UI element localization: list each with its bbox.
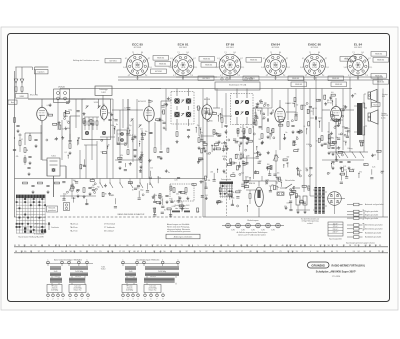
socket side label boxes bbox=[153, 52, 389, 87]
svg-text:47k: 47k bbox=[139, 172, 142, 174]
wires EM84 bbox=[243, 160, 276, 181]
svg-text:CuL 0,07: CuL 0,07 bbox=[75, 276, 81, 278]
resistor R4 bbox=[69, 144, 72, 155]
svg-text:13: 13 bbox=[296, 251, 298, 253]
svg-text:7,1: 7,1 bbox=[224, 52, 226, 54]
svg-text:1,8 45: 1,8 45 bbox=[181, 67, 186, 69]
legend symbols column bbox=[347, 203, 384, 239]
svg-text:28: 28 bbox=[349, 245, 351, 247]
svg-text:3: 3 bbox=[69, 259, 70, 261]
svg-text:2: 2 bbox=[53, 299, 54, 301]
svg-text:1n5: 1n5 bbox=[331, 92, 334, 94]
svg-text:Regler geschaltet: Regler geschaltet bbox=[365, 210, 379, 213]
speaker connector box bbox=[372, 103, 381, 107]
svg-text:47k: 47k bbox=[238, 159, 241, 161]
svg-text:16: 16 bbox=[61, 251, 63, 253]
svg-text:4: 4 bbox=[302, 251, 303, 253]
svg-text:25µ: 25µ bbox=[129, 125, 132, 127]
svg-text:2,4: 2,4 bbox=[145, 75, 147, 77]
svg-text:0,1: 0,1 bbox=[160, 199, 162, 201]
svg-text:Rückkopplung 9-63: Rückkopplung 9-63 bbox=[175, 205, 190, 207]
svg-text:8,4: 8,4 bbox=[279, 52, 281, 54]
svg-text:71: 71 bbox=[336, 251, 338, 253]
svg-text:100p: 100p bbox=[303, 105, 307, 107]
svg-text:47k: 47k bbox=[120, 155, 123, 157]
svg-text:9808 061: 9808 061 bbox=[157, 58, 164, 60]
Fi2 wires bbox=[237, 89, 262, 126]
svg-text:0,25: 0,25 bbox=[295, 112, 298, 114]
svg-text:CuL 0,07: CuL 0,07 bbox=[150, 276, 156, 278]
svg-text:25µ: 25µ bbox=[298, 133, 301, 135]
svg-text:50p: 50p bbox=[101, 151, 104, 153]
svg-text:8: 8 bbox=[163, 299, 164, 301]
svg-text:78: 78 bbox=[18, 245, 20, 247]
svg-text:35: 35 bbox=[379, 245, 381, 247]
svg-text:0,25: 0,25 bbox=[246, 177, 249, 179]
svg-text:6,7: 6,7 bbox=[302, 58, 304, 60]
svg-text:Bandkabel geschaltet: Bandkabel geschaltet bbox=[365, 236, 382, 239]
svg-text:245 3: 245 3 bbox=[181, 62, 185, 64]
svg-text:TA-27 ein: TA-27 ein bbox=[70, 229, 78, 232]
IF pentode V3 EF89 bbox=[202, 99, 212, 121]
svg-text:30: 30 bbox=[108, 145, 110, 147]
svg-text:0,25: 0,25 bbox=[343, 166, 346, 168]
svg-text:7,1: 7,1 bbox=[177, 52, 179, 54]
svg-text:35: 35 bbox=[69, 245, 71, 247]
svg-text:5,4: 5,4 bbox=[300, 67, 302, 69]
wires UKW unit bbox=[70, 99, 120, 140]
remark note block bbox=[166, 223, 200, 239]
resistor R3 bbox=[83, 119, 85, 124]
svg-text:Skalenlampen: Skalenlampen bbox=[247, 220, 258, 222]
svg-text:5,4: 5,4 bbox=[169, 67, 171, 69]
screen separator dashed line bbox=[227, 126, 254, 216]
svg-text:8n: 8n bbox=[328, 131, 330, 133]
svg-text:Körper 9-4: Körper 9-4 bbox=[74, 290, 82, 292]
svg-text:8n: 8n bbox=[116, 124, 118, 126]
svg-text:300: 300 bbox=[124, 142, 127, 144]
svg-text:9: 9 bbox=[161, 245, 162, 247]
svg-text:9808 061: 9808 061 bbox=[377, 60, 384, 62]
svg-text:Änderungen vorbehalten: Änderungen vorbehalten bbox=[174, 235, 193, 238]
svg-text:100p: 100p bbox=[63, 194, 67, 196]
output transformer Tr2 bbox=[354, 103, 367, 135]
svg-text:240Ω: 240Ω bbox=[20, 96, 25, 98]
tuning indicator V6 EM84 bbox=[249, 181, 263, 217]
svg-text:0 170 6: 0 170 6 bbox=[135, 65, 140, 67]
svg-text:200: 200 bbox=[199, 127, 202, 129]
svg-text:2x40: 2x40 bbox=[129, 271, 133, 273]
matrix side label bbox=[47, 206, 58, 212]
svg-text:9808 061: 9808 061 bbox=[375, 76, 382, 78]
wire mesh horizontal links bbox=[28, 77, 364, 210]
IF transformer Fi1 enclosure bbox=[171, 92, 194, 125]
svg-text:2x40: 2x40 bbox=[54, 271, 58, 273]
svg-text:200: 200 bbox=[140, 152, 143, 154]
svg-text:240 V~: 240 V~ bbox=[333, 232, 339, 234]
keyboard switch matrix header bbox=[16, 195, 46, 198]
switch legend text rows bbox=[16, 223, 115, 236]
svg-text:70p: 70p bbox=[206, 154, 209, 156]
svg-text:607 6901: 607 6901 bbox=[272, 47, 280, 49]
svg-text:9808 061: 9808 061 bbox=[159, 64, 166, 66]
svg-text:31: 31 bbox=[80, 251, 82, 253]
svg-text:500k: 500k bbox=[381, 171, 385, 173]
svg-text:4: 4 bbox=[310, 251, 311, 253]
svg-text:2: 2 bbox=[128, 299, 129, 301]
screen resistor R17 bbox=[213, 130, 221, 144]
svg-text:9808 061: 9808 061 bbox=[205, 65, 212, 67]
svg-text:38: 38 bbox=[164, 245, 166, 247]
eye grid resistor bbox=[249, 190, 251, 204]
svg-text:47: 47 bbox=[213, 245, 215, 247]
UKW box enclosure bbox=[82, 99, 111, 140]
svg-text:50: 50 bbox=[163, 251, 165, 253]
fuse holder bbox=[277, 192, 284, 195]
svg-text:1n5: 1n5 bbox=[150, 167, 153, 169]
svg-text:500k: 500k bbox=[164, 104, 168, 106]
svg-text:43: 43 bbox=[275, 245, 277, 247]
svg-text:0,1: 0,1 bbox=[88, 121, 90, 123]
voltage selector table bbox=[328, 222, 343, 241]
svg-text:10: 10 bbox=[236, 251, 238, 253]
svg-text:EABC 80: EABC 80 bbox=[308, 43, 321, 47]
Fi2 primary coil bbox=[235, 100, 249, 104]
svg-text:4,1: 4,1 bbox=[305, 75, 307, 77]
svg-text:8,4: 8,4 bbox=[362, 52, 364, 54]
loudspeaker LS1 bbox=[368, 89, 389, 101]
svg-text:9808 061: 9808 061 bbox=[335, 84, 342, 86]
svg-text:15: 15 bbox=[94, 251, 96, 253]
svg-text:6,7: 6,7 bbox=[263, 58, 265, 60]
svg-text:50p: 50p bbox=[259, 160, 262, 162]
svg-text:4,1: 4,1 bbox=[266, 75, 268, 77]
resistor R11 bbox=[140, 158, 143, 169]
svg-text:28: 28 bbox=[229, 251, 231, 253]
svg-text:Körper 9-4: Körper 9-4 bbox=[149, 290, 157, 292]
svg-text:30: 30 bbox=[164, 210, 166, 212]
svg-text:4,1: 4,1 bbox=[128, 75, 130, 77]
svg-text:EM 84: EM 84 bbox=[249, 183, 256, 185]
svg-text:92: 92 bbox=[186, 251, 188, 253]
svg-text:2,4: 2,4 bbox=[322, 75, 324, 77]
svg-text:9808 061: 9808 061 bbox=[344, 59, 351, 61]
svg-text:8: 8 bbox=[141, 251, 142, 253]
svg-text:6: 6 bbox=[209, 245, 210, 247]
svg-text:9808 061: 9808 061 bbox=[250, 60, 257, 62]
svg-text:30: 30 bbox=[196, 107, 198, 109]
svg-text:70p: 70p bbox=[184, 193, 187, 195]
IF transformer Fi2 enclosure bbox=[231, 94, 254, 125]
svg-text:34: 34 bbox=[251, 245, 253, 247]
svg-text:4: 4 bbox=[314, 245, 315, 247]
cathode resistor R31 bbox=[328, 144, 335, 156]
tube socket ECC 85 (bottom view) bbox=[123, 43, 152, 81]
svg-text:607 6901: 607 6901 bbox=[179, 47, 187, 49]
svg-text:82: 82 bbox=[206, 251, 208, 253]
svg-text:M Drucktaste: M Drucktaste bbox=[34, 226, 45, 229]
svg-text:300: 300 bbox=[208, 180, 211, 182]
svg-text:300: 300 bbox=[254, 153, 257, 155]
heater supply lines bbox=[118, 76, 383, 80]
svg-text:1,1: 1,1 bbox=[288, 67, 290, 69]
svg-text:300: 300 bbox=[343, 106, 346, 108]
svg-text:2,4: 2,4 bbox=[191, 75, 193, 77]
svg-text:25µ: 25µ bbox=[215, 142, 218, 144]
svg-text:42: 42 bbox=[133, 245, 135, 247]
svg-text:0 170 6: 0 170 6 bbox=[355, 65, 360, 67]
svg-text:29: 29 bbox=[354, 245, 356, 247]
svg-text:90: 90 bbox=[317, 251, 319, 253]
svg-text:300: 300 bbox=[221, 143, 224, 145]
svg-text:89: 89 bbox=[225, 251, 227, 253]
svg-text:100p: 100p bbox=[91, 187, 95, 189]
components below V1 bbox=[24, 133, 42, 165]
svg-text:50p: 50p bbox=[197, 211, 200, 213]
svg-text:14.2: 14.2 bbox=[16, 224, 20, 226]
triode V1a ECC85 bbox=[30, 95, 47, 123]
svg-text:9808 061: 9808 061 bbox=[375, 54, 382, 56]
svg-text:Cu 0,1: Cu 0,1 bbox=[129, 276, 134, 278]
svg-text:3: 3 bbox=[144, 259, 145, 261]
svg-text:10n: 10n bbox=[330, 102, 333, 104]
feedback network bbox=[170, 184, 194, 212]
AM filter box bbox=[47, 156, 60, 177]
Grundig logo oval bbox=[308, 262, 330, 268]
svg-text:5,4: 5,4 bbox=[123, 67, 125, 69]
svg-text:38: 38 bbox=[15, 251, 17, 253]
Fi1 wires bbox=[161, 89, 189, 131]
svg-text:100p: 100p bbox=[238, 190, 242, 192]
svg-text:37: 37 bbox=[44, 251, 46, 253]
schaltplan title bbox=[316, 271, 357, 278]
svg-text:200: 200 bbox=[264, 103, 267, 105]
triode V1b ECC85 bbox=[100, 104, 107, 122]
svg-text:5k: 5k bbox=[327, 142, 329, 144]
svg-text:2x34 Wdg: 2x34 Wdg bbox=[126, 290, 133, 292]
svg-text:1: 1 bbox=[123, 299, 124, 301]
resistor R10 bbox=[127, 150, 129, 155]
svg-text:39: 39 bbox=[102, 245, 104, 247]
UKW trimmer C5 bbox=[86, 106, 101, 109]
svg-text:4: 4 bbox=[119, 245, 120, 247]
svg-text:GRUNDIG: GRUNDIG bbox=[311, 264, 325, 268]
svg-text:27 Rechtslauf: 27 Rechtslauf bbox=[104, 223, 115, 226]
svg-text:5,4: 5,4 bbox=[216, 67, 218, 69]
svg-text:ECC 85: ECC 85 bbox=[132, 43, 143, 47]
UKW oscillator coil L1 bbox=[85, 131, 106, 135]
svg-text:0,25: 0,25 bbox=[111, 195, 114, 197]
svg-text:0,1: 0,1 bbox=[268, 167, 270, 169]
mains switch bbox=[280, 179, 300, 189]
svg-text:0,1: 0,1 bbox=[267, 153, 269, 155]
svg-text:1n5: 1n5 bbox=[265, 184, 268, 186]
svg-text:5: 5 bbox=[145, 299, 146, 301]
svg-text:9,7: 9,7 bbox=[325, 58, 327, 60]
svg-text:66: 66 bbox=[331, 251, 333, 253]
svg-text:24: 24 bbox=[353, 251, 355, 253]
demodulator V4 EABC80 bbox=[275, 102, 295, 124]
svg-text:70p: 70p bbox=[154, 208, 157, 210]
volume potentiometer bbox=[273, 150, 279, 178]
svg-text:0,25: 0,25 bbox=[124, 107, 127, 109]
svg-text:50: 50 bbox=[227, 245, 229, 247]
svg-text:46: 46 bbox=[282, 245, 284, 247]
capacitor C6 bbox=[90, 123, 93, 124]
svg-text:245 3: 245 3 bbox=[274, 62, 278, 64]
svg-text:Klang: Klang bbox=[348, 148, 353, 150]
svg-text:81: 81 bbox=[123, 251, 125, 253]
svg-text:17: 17 bbox=[119, 251, 121, 253]
detector diodes cluster bbox=[237, 129, 251, 145]
svg-text:4: 4 bbox=[78, 259, 79, 261]
svg-text:8,4: 8,4 bbox=[234, 52, 236, 54]
svg-text:1: 1 bbox=[48, 259, 49, 261]
svg-text:500k: 500k bbox=[111, 125, 115, 127]
tube socket EM 84 (bottom view) bbox=[261, 43, 290, 81]
svg-text:30: 30 bbox=[142, 156, 144, 158]
svg-text:2x130 Wdg: 2x130 Wdg bbox=[75, 271, 83, 273]
svg-text:125 V~: 125 V~ bbox=[333, 226, 339, 228]
svg-text:25µ: 25µ bbox=[197, 125, 200, 127]
svg-text:0,1: 0,1 bbox=[197, 162, 199, 164]
svg-text:5k: 5k bbox=[62, 129, 64, 131]
keyboard switch matrix grid bbox=[16, 198, 47, 233]
svg-text:1,1: 1,1 bbox=[195, 67, 197, 69]
svg-text:5k: 5k bbox=[240, 127, 242, 129]
svg-text:2: 2 bbox=[62, 259, 63, 261]
svg-text:10n: 10n bbox=[335, 137, 338, 139]
Fi1 secondary coil bbox=[174, 112, 191, 117]
tube socket ECH 81 (bottom view) bbox=[169, 43, 198, 81]
svg-text:0,25: 0,25 bbox=[157, 120, 160, 122]
tube socket EL 84 (bottom view) bbox=[344, 43, 373, 81]
svg-text:0,1: 0,1 bbox=[64, 115, 66, 117]
svg-text:BAND-WECHSELSCHALTER: BAND-WECHSELSCHALTER bbox=[118, 213, 145, 216]
svg-text:50: 50 bbox=[75, 245, 77, 247]
svg-text:6,7: 6,7 bbox=[125, 58, 127, 60]
svg-text:0,25: 0,25 bbox=[241, 172, 244, 174]
svg-text:50p: 50p bbox=[237, 154, 240, 156]
svg-text:CuL 0,12: CuL 0,12 bbox=[149, 286, 156, 288]
svg-text:47k: 47k bbox=[214, 147, 217, 149]
svg-text:8: 8 bbox=[88, 299, 89, 301]
svg-text:17: 17 bbox=[241, 251, 243, 253]
svg-text:30: 30 bbox=[303, 126, 305, 128]
svg-text:Spannungswähler: Spannungswähler bbox=[329, 239, 342, 241]
svg-text:94: 94 bbox=[263, 251, 265, 253]
svg-text:1,1: 1,1 bbox=[150, 67, 152, 69]
svg-text:70p: 70p bbox=[330, 137, 333, 139]
svg-text:30: 30 bbox=[201, 195, 203, 197]
svg-text:5,4: 5,4 bbox=[261, 67, 263, 69]
svg-text:0,25: 0,25 bbox=[54, 139, 57, 141]
svg-text:1n5: 1n5 bbox=[344, 170, 347, 172]
svg-text:8,4: 8,4 bbox=[187, 52, 189, 54]
tuning gang C16 bbox=[131, 119, 142, 128]
pointer arrow bbox=[48, 222, 59, 230]
svg-text:48: 48 bbox=[369, 251, 371, 253]
UKW antenna input sockets bbox=[54, 86, 70, 103]
svg-text:50p: 50p bbox=[307, 188, 310, 190]
mains transformer Tr1 bbox=[313, 187, 327, 214]
svg-text:EF 89: EF 89 bbox=[226, 43, 235, 47]
svg-text:mit Röhrenvoltmeter gemessen.: mit Röhrenvoltmeter gemessen. bbox=[167, 230, 191, 233]
svg-text:200: 200 bbox=[67, 128, 70, 130]
svg-text:20x0,05: 20x0,05 bbox=[127, 288, 133, 290]
svg-text:0 170 6: 0 170 6 bbox=[227, 65, 232, 67]
svg-text:EL 84: EL 84 bbox=[354, 43, 362, 47]
svg-text:70p: 70p bbox=[164, 128, 167, 130]
svg-text:100p: 100p bbox=[332, 108, 336, 110]
svg-text:8n: 8n bbox=[296, 136, 298, 138]
wires EF89 bbox=[199, 97, 220, 178]
svg-text:63 Linkslauf: 63 Linkslauf bbox=[104, 230, 114, 232]
svg-text:0,25: 0,25 bbox=[372, 167, 375, 169]
svg-text:70p: 70p bbox=[223, 172, 226, 174]
svg-text:8n: 8n bbox=[278, 187, 280, 189]
svg-text:2,4: 2,4 bbox=[238, 75, 240, 77]
selenium rectifier Gl1 bbox=[328, 192, 345, 214]
svg-text:1,1: 1,1 bbox=[242, 67, 244, 69]
svg-text:0,1: 0,1 bbox=[329, 97, 331, 99]
svg-text:39: 39 bbox=[310, 245, 312, 247]
oscillator transformer winding diagram bbox=[121, 258, 179, 300]
svg-text:9808 061: 9808 061 bbox=[295, 84, 302, 86]
svg-text:200: 200 bbox=[176, 193, 179, 195]
svg-text:50p: 50p bbox=[253, 124, 256, 126]
svg-text:10n: 10n bbox=[254, 112, 257, 114]
resistor R14 bbox=[176, 132, 179, 143]
electrolytic filter capacitors bbox=[296, 196, 307, 214]
svg-text:2x130 Wdg: 2x130 Wdg bbox=[158, 271, 166, 273]
svg-text:47k: 47k bbox=[359, 172, 362, 174]
svg-text:3: 3 bbox=[133, 299, 134, 301]
svg-text:10n: 10n bbox=[237, 141, 240, 143]
grid resistor R30 bbox=[321, 136, 324, 147]
svg-text:47k: 47k bbox=[16, 156, 19, 158]
svg-text:Stellung der Drucktasten von v: Stellung der Drucktasten von vorn bbox=[73, 59, 99, 62]
svg-text:0,1: 0,1 bbox=[64, 152, 66, 154]
svg-text:9,7: 9,7 bbox=[241, 58, 243, 60]
svg-text:1,8 45: 1,8 45 bbox=[273, 67, 278, 69]
padder capacitors bbox=[118, 145, 162, 170]
svg-text:245 3: 245 3 bbox=[136, 62, 140, 64]
svg-text:1,8 45: 1,8 45 bbox=[135, 67, 140, 69]
svg-text:TA-63 ein: TA-63 ein bbox=[70, 226, 78, 229]
svg-text:ECH 81: ECH 81 bbox=[138, 101, 146, 103]
svg-text:8n: 8n bbox=[83, 114, 85, 116]
svg-text:18: 18 bbox=[88, 245, 90, 247]
AGC bus line bbox=[15, 178, 206, 180]
svg-text:TA-63 aus: TA-63 aus bbox=[70, 223, 78, 226]
svg-text:90: 90 bbox=[364, 251, 366, 253]
svg-text:70p: 70p bbox=[247, 138, 250, 140]
svg-text:K Drucktaste: K Drucktaste bbox=[34, 233, 44, 236]
svg-text:300: 300 bbox=[210, 121, 213, 123]
svg-text:0,1: 0,1 bbox=[363, 163, 365, 165]
svg-text:30: 30 bbox=[245, 187, 247, 189]
lamp panel under sockets bbox=[215, 78, 260, 90]
svg-text:4: 4 bbox=[138, 299, 139, 301]
svg-text:30: 30 bbox=[105, 193, 107, 195]
svg-text:Netzschalter: Netzschalter bbox=[285, 179, 295, 182]
svg-text:300: 300 bbox=[137, 187, 140, 189]
svg-text:8n: 8n bbox=[92, 178, 94, 180]
wire grid ECC85 bbox=[28, 99, 95, 160]
svg-text:8,4: 8,4 bbox=[318, 52, 320, 54]
band switch dashed line bbox=[14, 213, 388, 217]
